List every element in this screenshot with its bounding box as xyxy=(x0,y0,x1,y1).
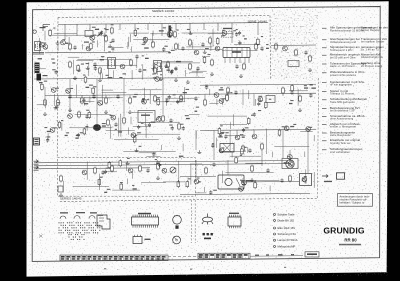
capacitor upper-out 2 xyxy=(242,128,245,132)
wire if-row v7 xyxy=(161,68,163,79)
capacitor audio-front 8 xyxy=(46,138,49,143)
wire audio-front h2 xyxy=(106,129,135,131)
capacitor C3 xyxy=(111,38,114,43)
strip end box text xyxy=(307,253,317,255)
wire if-row v12 xyxy=(108,65,110,78)
capacitor C13 xyxy=(304,50,307,55)
value label if-row 16 xyxy=(176,61,181,62)
ref label if-row 7 xyxy=(155,64,158,65)
switch contact dot grid lower xyxy=(69,234,85,240)
ref label rf-top 4 xyxy=(93,35,96,36)
ref label agc-row 10 xyxy=(93,86,96,87)
IC1 pin lead 6 xyxy=(248,58,250,64)
wire upper-out v4 xyxy=(247,147,249,153)
wire agc-row v16 xyxy=(209,89,211,95)
wire drop agc 5 xyxy=(154,95,156,96)
ref label rf-top 24 xyxy=(62,39,65,40)
ref label agc-row 8 xyxy=(89,85,93,86)
value label if-row 24 xyxy=(143,69,146,70)
mini legend 2 symbol xyxy=(274,219,276,221)
wire upper-out h7 xyxy=(226,135,245,137)
ref label if-row 13 xyxy=(152,74,154,75)
wire drop agc 6 xyxy=(180,95,182,96)
IC1 pin lead 4 xyxy=(239,58,241,64)
value label rf-top 17 xyxy=(95,29,99,30)
coil box L3 xyxy=(288,61,299,67)
wire audio vert 4 xyxy=(162,78,164,114)
capacitor audio-front 4 xyxy=(182,126,185,131)
transistor agc-row 17 xyxy=(142,99,147,104)
wire lower-out v4 xyxy=(190,164,192,185)
wire if-row h4 xyxy=(189,72,203,74)
speaker box xyxy=(300,174,312,186)
wire rf-top h12 xyxy=(178,49,222,51)
transistor agc-row 6 xyxy=(51,88,56,93)
value label agc-row 26 xyxy=(84,103,88,104)
ref label audio-front 21 xyxy=(185,115,189,116)
wire audio-front v2 xyxy=(61,123,63,131)
fold mark 2 xyxy=(190,269,192,270)
ref label upper-out 12 xyxy=(221,133,224,134)
resistor R8 xyxy=(189,39,192,47)
ref label agc-row 25 xyxy=(70,88,73,89)
ref label rf-top 3 xyxy=(143,37,146,38)
wire audio vert 6 xyxy=(213,130,215,160)
ref label agc-row 3 xyxy=(205,85,208,86)
ferrite rod coil L1 xyxy=(35,42,41,51)
ref label audio-front 7 xyxy=(110,115,113,116)
value label rf-top 8 xyxy=(266,48,269,49)
wire agc-row v1 xyxy=(165,99,167,105)
wire vertical drop 13 xyxy=(231,23,233,43)
resistor R9 xyxy=(209,37,212,45)
wire upper-out h3 xyxy=(220,124,247,126)
ref label if-row 6 xyxy=(51,59,54,60)
ref label sub-board 12 xyxy=(100,177,103,178)
ref label audio-front 4 xyxy=(180,124,184,125)
resistor R7 xyxy=(175,43,178,51)
resistor R17 xyxy=(275,43,278,51)
output cap box xyxy=(282,159,298,169)
value label sub-board 11 xyxy=(133,188,137,189)
value label agc-row 12 xyxy=(304,87,308,88)
capacitor sub-board 1 xyxy=(156,160,159,165)
legend row 13 symbol xyxy=(322,132,327,134)
scan noise dense top right xyxy=(271,9,318,80)
transistor upper-out 5 xyxy=(284,126,289,131)
wire left-col v1 xyxy=(44,31,46,41)
resistor R35 xyxy=(242,145,245,153)
wire audio-front v1 xyxy=(120,114,122,124)
wire agc-row v2 xyxy=(248,90,250,99)
wire upper-out v6 xyxy=(271,152,273,158)
ref label upper-out 2 xyxy=(245,127,249,128)
ground agc-row 11 xyxy=(53,106,57,109)
ref label agc-row 15 xyxy=(134,94,138,95)
value label agc-row 22 xyxy=(183,92,187,93)
wire vertical drop 2 xyxy=(76,24,78,36)
transistor lower-out 7 xyxy=(288,161,293,166)
ref label agc-row 2 xyxy=(310,84,313,85)
driver transformer box xyxy=(220,144,234,153)
ref label sub-board 10 xyxy=(120,182,123,183)
ref label upper-out 8 xyxy=(240,155,242,156)
wire upper-out h5 xyxy=(274,145,309,147)
wire rf-top v15 xyxy=(152,33,154,43)
ref label agc-row 28 xyxy=(173,94,176,95)
capacitor C18 xyxy=(141,98,144,103)
ref label upper-out 13 xyxy=(293,124,296,125)
ref label agc-row 9 xyxy=(220,87,223,88)
resistor audio-front 17 xyxy=(133,135,136,143)
band switch stripes xyxy=(35,65,39,71)
IC pinout DIP xyxy=(132,217,159,225)
ref label rf-top 11 xyxy=(243,35,245,36)
resistor upper-out 11 xyxy=(241,147,244,155)
resistor rf-top 7 xyxy=(170,29,173,37)
value label left-col 1 xyxy=(39,82,43,83)
wire agc-row h5 xyxy=(80,100,95,102)
wire if-row v4 xyxy=(113,70,115,78)
transistor audio-front 20 xyxy=(131,133,136,138)
value label rf-top 12 xyxy=(168,52,171,53)
value label agc-row 2 xyxy=(311,88,316,89)
wire vertical drop 3 xyxy=(89,24,91,30)
ref label rf-top 13 xyxy=(104,28,107,29)
IC1 pin lead 3 xyxy=(234,58,236,64)
value label agc-row 9 xyxy=(219,89,224,90)
wire vertical drop 9 xyxy=(175,23,177,30)
ref label if-row 2 xyxy=(81,64,84,65)
wire rf-top v4 xyxy=(130,46,132,52)
DIP pins comb xyxy=(133,215,158,228)
ground mid 1 xyxy=(128,110,132,113)
wire upper-out v8 xyxy=(231,152,233,158)
resistor R29 xyxy=(57,99,60,107)
crystal/dark cap xyxy=(169,26,172,38)
capacitor C19 xyxy=(116,94,119,99)
capacitor C16 xyxy=(194,96,197,101)
electrolytic C1 xyxy=(58,186,63,192)
capacitor agc-row 28 xyxy=(168,95,171,100)
wire left-col h2 xyxy=(37,68,46,70)
ref label sub-board 4 xyxy=(127,158,130,159)
wire lower-out v3 xyxy=(269,186,271,192)
wire audio-front v11 xyxy=(118,118,120,137)
value label if-row 13 xyxy=(153,77,157,78)
wire agc-row v6 xyxy=(297,89,299,106)
ref label rf-top 16 xyxy=(53,28,55,29)
ref label agc-row 4 xyxy=(157,97,160,98)
ref label agc-row 22 xyxy=(186,89,190,90)
capacitor rf-top 6 xyxy=(238,31,241,36)
wire rf-top v3 xyxy=(152,31,154,36)
ground sub-board xyxy=(59,193,63,196)
value label audio-front 10 xyxy=(118,131,122,132)
capacitor rf-top 13 xyxy=(100,31,103,36)
capacitor agc-row 27 xyxy=(309,93,312,98)
wire upper-out v3 xyxy=(313,135,315,141)
resistor R27 xyxy=(105,97,108,105)
wire audio-front h8 xyxy=(189,114,200,116)
wire sub-board h1 xyxy=(73,185,109,187)
ref label audio-front 20 xyxy=(137,132,141,133)
capacitor agc-row 3 xyxy=(205,85,208,90)
resistor audio-front 18 xyxy=(83,127,86,135)
voltage table ticks right xyxy=(198,253,248,258)
resistor upper-out 8 xyxy=(235,156,238,164)
transistor upper-out 4 xyxy=(287,155,292,160)
wire sub-board v4 xyxy=(86,162,88,180)
wire rf-top v8 xyxy=(127,42,129,49)
resistor R13 xyxy=(189,63,192,71)
resistor R41 xyxy=(111,165,114,173)
DIN socket lower arrows xyxy=(34,160,39,171)
legend row 10 symbol xyxy=(322,108,327,110)
legend row 8 symbol xyxy=(322,90,327,92)
ref label upper-out 14 xyxy=(225,132,228,133)
ground preamp xyxy=(156,176,160,179)
ref label rf-top 28 xyxy=(163,27,166,28)
capacitor C9 xyxy=(174,66,177,71)
wire audio vert 5 xyxy=(195,130,197,150)
wire mid-gap v2 xyxy=(160,145,162,150)
wire agc-row v14 xyxy=(184,87,186,102)
ref label audio-front 17 xyxy=(135,135,137,136)
capacitor C29 xyxy=(101,170,104,175)
transistor can top view 1 xyxy=(173,216,182,229)
ref label upper-out 5 xyxy=(285,126,287,127)
wire sub-board v1 xyxy=(62,181,64,193)
resistor agc-row 13 xyxy=(226,94,229,102)
wire drop agc 10 xyxy=(282,94,284,96)
resistor audio-front 15 xyxy=(88,111,91,119)
ref label left-col 3 xyxy=(44,43,46,44)
ground if-row 8 xyxy=(186,80,190,83)
ref label rf-top 12 xyxy=(171,50,175,51)
dashed partition right lower xyxy=(318,78,319,199)
capacitor rf-top 5 xyxy=(235,32,238,37)
ref label rf-top 5 xyxy=(233,30,236,31)
legend sym label xyxy=(324,181,332,182)
wire drop agc 3 xyxy=(105,95,107,98)
resistor agc-row 18 xyxy=(226,94,229,102)
resistor R30 xyxy=(78,111,81,119)
resistor R22 xyxy=(299,95,302,103)
transistor upper-out 1 xyxy=(219,148,224,153)
ref label if-row 23 xyxy=(160,74,162,75)
value label agc-row 21 xyxy=(289,103,293,104)
capacitor C14 xyxy=(234,90,237,95)
capacitor C24 xyxy=(169,118,172,123)
resistor if-row 19 xyxy=(203,56,206,64)
transistor T3 IF xyxy=(120,64,125,69)
wire audio line L xyxy=(34,161,288,163)
wire drop agc 7 xyxy=(204,95,206,100)
FM antenna terminal IO xyxy=(33,30,36,33)
wire agc-row h3 xyxy=(165,97,196,99)
wire lower-out h4 xyxy=(195,192,206,194)
transistor side view with lead xyxy=(202,214,213,225)
wire if-row v8 xyxy=(102,73,104,79)
ref label rf-top 27 xyxy=(205,48,209,49)
resistor R14 xyxy=(211,59,214,67)
ref label rf-top 17 xyxy=(92,27,96,28)
wire left-col v2 xyxy=(44,87,46,103)
wire sub-board v5 xyxy=(126,179,128,185)
resistor R19 xyxy=(309,55,312,63)
capacitor C30 xyxy=(146,168,149,173)
value label mid-gap 4 xyxy=(179,156,184,157)
wire rf-top v14 xyxy=(128,37,130,47)
IC1 demodulator box xyxy=(223,48,250,58)
value label upper-out 13 xyxy=(290,126,294,127)
capacitor if-row 1 xyxy=(170,70,173,75)
variable cap trimmer xyxy=(98,31,103,37)
wire audio-front h9 xyxy=(75,114,112,116)
capacitor sub-board 3 xyxy=(104,170,107,175)
resistor R39 xyxy=(251,165,254,173)
block label xyxy=(43,75,48,76)
ground out xyxy=(250,178,254,181)
transistor lower-out 2 xyxy=(302,177,307,182)
voltage table strip right xyxy=(198,253,250,258)
wire vertical drop 10 xyxy=(189,23,191,33)
connector housing xyxy=(97,215,110,229)
ref label agc-row 19 xyxy=(222,98,226,99)
wire agc-row h4 xyxy=(209,103,218,105)
wire sub-board h2 xyxy=(112,189,140,191)
ref label rf-top 8 xyxy=(266,44,268,45)
legend row 15 symbol xyxy=(322,149,327,151)
capacitor audio-front 5 xyxy=(137,125,140,130)
ref label audio-front 15 xyxy=(86,110,89,111)
transistor if-row 12 xyxy=(155,77,160,82)
ref label lower-out 4 xyxy=(241,181,244,182)
wire drop agc 1 xyxy=(57,96,59,100)
capacitor audio-front 12 xyxy=(77,133,80,138)
wire audio vert 2 xyxy=(96,79,98,124)
wire audio-front v7 xyxy=(120,123,122,136)
dashed chassis outline left xyxy=(56,17,59,158)
resistor sub-board 10 xyxy=(120,183,123,191)
resistor R43 xyxy=(157,163,160,171)
ref label sub-board 11 xyxy=(132,185,134,186)
wire audio vert 12 xyxy=(227,160,229,175)
resistor R10 xyxy=(69,61,72,69)
band switch block S1 xyxy=(35,63,40,74)
wire lower-out h5 xyxy=(190,163,202,165)
capacitor C8 xyxy=(138,68,141,73)
wire rf-top h7 xyxy=(150,33,167,35)
wire mid rail 2 xyxy=(200,84,316,85)
value label if-row 20 xyxy=(108,77,113,78)
resistor R21 xyxy=(282,87,285,95)
resistor agc-row 10 xyxy=(92,87,95,95)
wire audio vert 9 xyxy=(282,130,284,159)
label T2 xyxy=(84,42,89,43)
resistor R26 xyxy=(129,97,132,105)
wire mid-gap v1 xyxy=(182,144,184,152)
wire if-row v3 xyxy=(88,62,90,76)
resistor R3 xyxy=(69,43,72,51)
ref label rf-top 26 xyxy=(187,29,190,30)
resistor R33 xyxy=(162,115,165,123)
wire output rail xyxy=(200,129,316,130)
dashed sub-board box SERIES 140/45 xyxy=(57,158,195,197)
legend row 5 symbol xyxy=(322,63,327,65)
fold mark 3 xyxy=(284,267,286,268)
ref label if-row 18 xyxy=(142,55,144,56)
wire rf-top v13 xyxy=(212,29,214,47)
ref label audio-front 16 xyxy=(102,123,106,124)
capacitor C10 xyxy=(196,66,199,71)
wire if-row v2 xyxy=(136,58,138,68)
transistor T4 osc xyxy=(143,37,148,42)
ref label rf-top 14 xyxy=(111,49,114,50)
capacitor C4 xyxy=(135,54,138,59)
resistor R1 left xyxy=(44,99,47,107)
legend row 12 symbol xyxy=(322,124,327,126)
ref label agc-row 17 xyxy=(147,99,150,100)
ref label mid-gap 1 xyxy=(139,146,142,147)
capacitor C7 xyxy=(93,62,96,67)
ref label audio-front 10 xyxy=(115,129,117,130)
wire sub-board v7 xyxy=(98,174,100,191)
resistor R28 xyxy=(81,97,84,105)
wire if-row h8 xyxy=(93,65,137,67)
wire if-row h3 xyxy=(76,60,93,62)
ref label sub-board 8 xyxy=(107,189,111,190)
legend row 6 symbol xyxy=(322,72,327,74)
wire rf-top h8 xyxy=(52,34,103,36)
ref label if-row 20 xyxy=(106,75,109,76)
wire lower-out v6 xyxy=(222,171,224,183)
wire mid-gap h1 xyxy=(123,150,175,152)
wire audio line R xyxy=(34,164,288,166)
wire audio-front v3 xyxy=(86,124,88,131)
resistor rf-top 16 xyxy=(49,29,52,37)
ground if-row 23 xyxy=(159,77,163,80)
resistor R38 xyxy=(205,167,208,175)
wire if-row h7 xyxy=(202,56,210,58)
wire drop agc 9 xyxy=(253,94,255,106)
wire if-row v10 xyxy=(100,70,102,78)
resistor R12 xyxy=(167,61,170,69)
wire upper-out v2 xyxy=(233,114,235,126)
value label sub-board 8 xyxy=(104,192,107,193)
wire audio vert 1 xyxy=(69,79,71,112)
legend row 7 symbol xyxy=(322,82,327,84)
ref label agc-row 21 xyxy=(290,100,293,101)
transistor can top view 2 xyxy=(173,236,181,244)
ref label left-col 5 xyxy=(44,81,47,82)
ref label agc-row 26 xyxy=(82,100,86,101)
wire audio vert 8 xyxy=(253,130,255,134)
wire lower-out v1 xyxy=(204,187,206,192)
ref label upper-out 3 xyxy=(240,134,244,135)
resistor R4 xyxy=(105,35,108,43)
capacitor C15 xyxy=(290,90,293,95)
transistor T2 mixer xyxy=(86,46,91,51)
ref label agc-row 5 xyxy=(258,96,262,97)
ref label upper-out 17 xyxy=(309,127,313,128)
capacitor audio-front 14 xyxy=(148,123,151,128)
ref label rf-top 15 xyxy=(222,30,225,31)
resistor sub-board 12 xyxy=(98,178,101,186)
value label agc-row 15 xyxy=(133,96,137,97)
ref label lower-out 2 xyxy=(304,176,307,177)
